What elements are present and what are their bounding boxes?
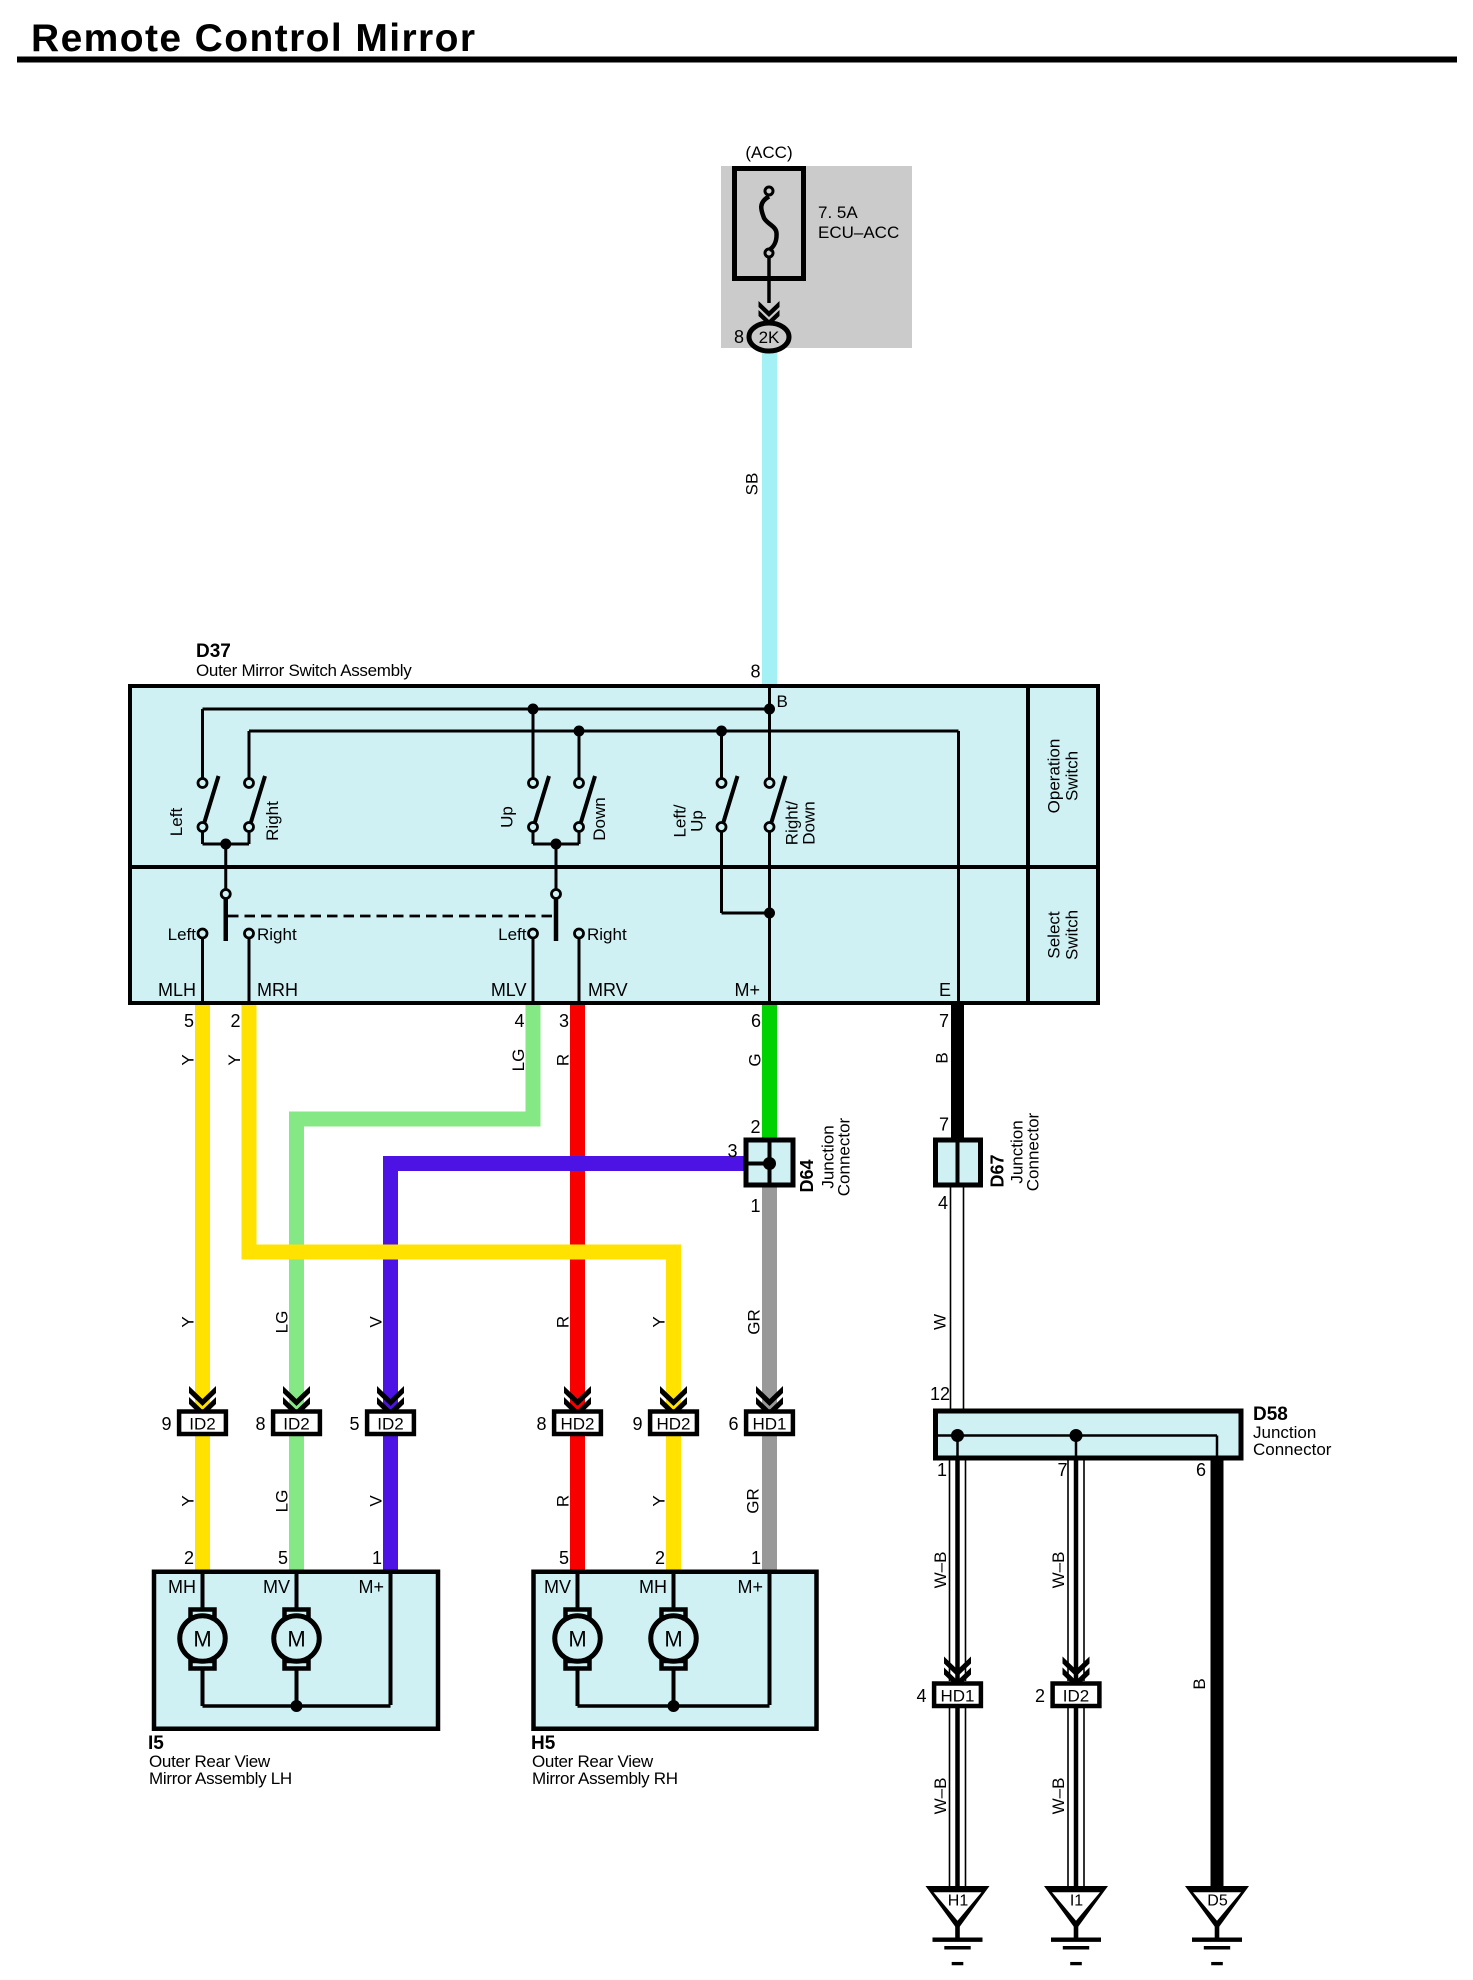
svg-text:5: 5 (184, 1011, 194, 1031)
svg-text:W: W (931, 1314, 950, 1330)
svg-text:5: 5 (349, 1414, 359, 1434)
svg-text:I1: I1 (1070, 1893, 1083, 1910)
svg-text:MV: MV (544, 1577, 571, 1597)
svg-text:MLH: MLH (158, 980, 196, 1000)
svg-text:Remote Control Mirror: Remote Control Mirror (31, 17, 476, 60)
svg-text:Y: Y (225, 1054, 244, 1065)
svg-text:Mirror Assembly LH: Mirror Assembly LH (149, 1769, 292, 1788)
svg-text:HD2: HD2 (560, 1415, 594, 1434)
svg-text:2: 2 (230, 1011, 240, 1031)
svg-text:Down: Down (800, 801, 819, 844)
svg-text:V: V (367, 1495, 386, 1507)
svg-text:2: 2 (184, 1548, 194, 1568)
svg-text:Operation: Operation (1045, 739, 1064, 814)
svg-text:ID2: ID2 (189, 1415, 215, 1434)
svg-text:8: 8 (255, 1414, 265, 1434)
svg-text:D5: D5 (1207, 1893, 1228, 1910)
svg-text:GR: GR (744, 1488, 763, 1514)
svg-text:8: 8 (734, 327, 744, 347)
svg-text:2: 2 (1035, 1686, 1045, 1706)
svg-text:8: 8 (536, 1414, 546, 1434)
svg-text:4: 4 (938, 1193, 948, 1213)
svg-text:B: B (933, 1052, 952, 1063)
svg-text:LG: LG (273, 1311, 292, 1334)
svg-text:W–B: W–B (1049, 1552, 1068, 1589)
svg-text:M: M (664, 1627, 682, 1652)
svg-text:ID2: ID2 (377, 1415, 403, 1434)
svg-text:MH: MH (168, 1577, 196, 1597)
svg-text:Select: Select (1045, 911, 1064, 959)
svg-text:R: R (554, 1054, 573, 1066)
svg-text:2K: 2K (759, 328, 780, 347)
svg-text:Y: Y (179, 1316, 198, 1327)
svg-text:5: 5 (278, 1548, 288, 1568)
svg-text:Up: Up (688, 810, 707, 832)
svg-text:MH: MH (639, 1577, 667, 1597)
svg-text:Right: Right (257, 925, 297, 944)
svg-text:SB: SB (743, 473, 762, 496)
svg-text:R: R (554, 1316, 573, 1328)
svg-text:G: G (746, 1053, 765, 1066)
svg-text:GR: GR (745, 1309, 764, 1335)
svg-text:Right: Right (587, 925, 627, 944)
svg-text:M: M (287, 1627, 305, 1652)
svg-text:Y: Y (179, 1054, 198, 1065)
svg-text:Left: Left (498, 925, 527, 944)
svg-text:HD1: HD1 (940, 1687, 974, 1706)
svg-text:Y: Y (650, 1495, 669, 1506)
svg-text:D37: D37 (196, 641, 231, 662)
svg-text:2: 2 (750, 1117, 760, 1137)
svg-text:1: 1 (751, 1548, 761, 1568)
svg-text:Outer Mirror Switch Assembly: Outer Mirror Switch Assembly (196, 661, 412, 680)
svg-text:M+: M+ (737, 1577, 763, 1597)
svg-text:Right: Right (263, 801, 282, 841)
svg-text:6: 6 (1196, 1460, 1206, 1480)
svg-text:(ACC): (ACC) (745, 143, 792, 162)
svg-text:Connector: Connector (1024, 1112, 1043, 1191)
svg-text:M+: M+ (734, 980, 760, 1000)
svg-text:MV: MV (263, 1577, 290, 1597)
svg-text:R: R (554, 1495, 573, 1507)
svg-text:Up: Up (498, 806, 517, 828)
svg-text:6: 6 (751, 1011, 761, 1031)
svg-text:7: 7 (1057, 1460, 1067, 1480)
svg-text:4: 4 (514, 1011, 524, 1031)
svg-text:Connector: Connector (1253, 1440, 1332, 1459)
svg-text:Mirror Assembly RH: Mirror Assembly RH (532, 1769, 678, 1788)
svg-text:HD1: HD1 (752, 1415, 786, 1434)
svg-text:H1: H1 (948, 1893, 969, 1910)
svg-text:I5: I5 (148, 1733, 164, 1754)
svg-text:1: 1 (750, 1196, 760, 1216)
svg-text:MLV: MLV (491, 980, 527, 1000)
svg-text:M: M (568, 1627, 586, 1652)
svg-text:7: 7 (939, 1115, 949, 1135)
svg-text:Switch: Switch (1063, 751, 1082, 801)
svg-text:2: 2 (655, 1548, 665, 1568)
svg-text:4: 4 (916, 1686, 926, 1706)
svg-text:E: E (939, 980, 951, 1000)
svg-text:1: 1 (937, 1460, 947, 1480)
svg-text:7: 7 (939, 1011, 949, 1031)
svg-text:B: B (1190, 1678, 1209, 1689)
svg-text:3: 3 (559, 1011, 569, 1031)
svg-text:W–B: W–B (931, 1552, 950, 1589)
svg-text:M+: M+ (358, 1577, 384, 1597)
svg-text:Left: Left (168, 925, 197, 944)
svg-text:LG: LG (273, 1490, 292, 1513)
svg-text:ID2: ID2 (283, 1415, 309, 1434)
svg-text:ECU–ACC: ECU–ACC (818, 223, 899, 242)
svg-text:LG: LG (509, 1049, 528, 1072)
svg-text:9: 9 (161, 1414, 171, 1434)
svg-text:Y: Y (179, 1495, 198, 1506)
svg-text:Y: Y (650, 1316, 669, 1327)
svg-text:Down: Down (590, 797, 609, 840)
svg-text:12: 12 (930, 1384, 950, 1404)
svg-text:6: 6 (728, 1414, 738, 1434)
svg-text:3: 3 (727, 1141, 737, 1161)
svg-text:ID2: ID2 (1063, 1687, 1089, 1706)
svg-text:Connector: Connector (835, 1117, 854, 1196)
svg-text:B: B (777, 692, 788, 711)
svg-text:HD2: HD2 (656, 1415, 690, 1434)
svg-text:Switch: Switch (1063, 910, 1082, 960)
svg-text:Left: Left (167, 808, 186, 837)
svg-text:D64: D64 (797, 1159, 817, 1192)
svg-text:5: 5 (559, 1548, 569, 1568)
svg-text:D67: D67 (988, 1154, 1008, 1187)
svg-text:MRH: MRH (257, 980, 298, 1000)
svg-text:7. 5A: 7. 5A (818, 203, 858, 222)
svg-text:D58: D58 (1253, 1404, 1288, 1425)
svg-text:W–B: W–B (931, 1778, 950, 1815)
svg-text:MRV: MRV (588, 980, 628, 1000)
svg-text:H5: H5 (531, 1733, 556, 1754)
svg-text:8: 8 (750, 662, 760, 682)
svg-text:M: M (193, 1627, 211, 1652)
svg-text:W–B: W–B (1049, 1778, 1068, 1815)
svg-text:V: V (367, 1316, 386, 1328)
svg-text:1: 1 (372, 1548, 382, 1568)
svg-text:9: 9 (632, 1414, 642, 1434)
